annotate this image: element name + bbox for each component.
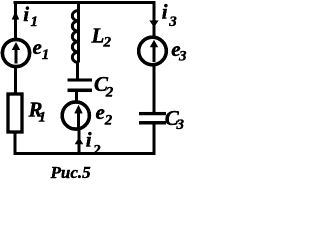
- svg-text:Рис.5: Рис.5: [50, 163, 92, 182]
- capacitor C2: [68, 80, 93, 90]
- wire middle branch below C2: [75, 90, 78, 103]
- svg-text:1: 1: [42, 47, 50, 63]
- wire left branch middle segment: [14, 66, 17, 94]
- label e2: [96, 100, 113, 129]
- svg-text:2: 2: [105, 85, 114, 101]
- label i3: [162, 0, 178, 30]
- wire bottom horizontal (node between branches): [14, 152, 156, 155]
- svg-text:3: 3: [176, 117, 185, 133]
- svg-text:1: 1: [31, 14, 39, 30]
- resistor R1: [8, 94, 22, 132]
- svg-text:e: e: [96, 100, 105, 124]
- wire right branch middle segment: [152, 64, 155, 112]
- current arrow i1: [12, 11, 20, 20]
- svg-text:i: i: [86, 128, 92, 152]
- wire middle branch above C2: [76, 61, 79, 80]
- wire middle branch below e2: [78, 128, 81, 155]
- svg-text:3: 3: [178, 49, 187, 65]
- current arrow i2: [75, 137, 84, 144]
- source e2: [62, 102, 89, 129]
- label e3: [171, 37, 187, 65]
- label R1: [28, 98, 47, 126]
- current arrow i3: [149, 20, 158, 27]
- wire top horizontal (node between branches): [14, 1, 156, 4]
- svg-text:2: 2: [104, 113, 113, 129]
- svg-text:2: 2: [92, 142, 101, 158]
- wire right branch upper segment: [152, 1, 155, 37]
- wire left branch lower segment: [13, 132, 16, 155]
- wire middle branch top stub: [77, 1, 80, 11]
- capacitor C3: [139, 114, 166, 123]
- svg-text:L: L: [91, 23, 105, 47]
- label C3: [165, 106, 185, 133]
- inductor L2: [72, 11, 78, 63]
- wire right branch lower segment: [152, 122, 155, 156]
- svg-text:1: 1: [39, 110, 47, 126]
- svg-text:e: e: [33, 35, 42, 59]
- svg-text:i: i: [162, 0, 168, 24]
- source e3: [139, 37, 167, 65]
- svg-text:i: i: [23, 2, 29, 26]
- svg-text:3: 3: [168, 14, 177, 30]
- label L2: [91, 23, 112, 50]
- wire left branch upper segment: [14, 1, 17, 39]
- label C2: [94, 72, 114, 101]
- svg-text:2: 2: [103, 35, 112, 51]
- label i1: [23, 2, 38, 30]
- label e1: [33, 35, 50, 63]
- source e1: [2, 39, 29, 66]
- label i2: [86, 128, 101, 159]
